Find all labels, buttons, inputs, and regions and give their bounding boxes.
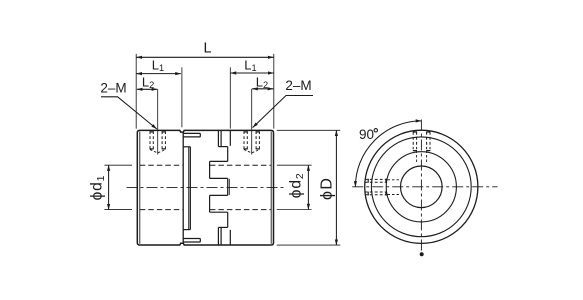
svg-text:L1: L1 [244,58,256,74]
meander step h1 [218,146,227,148]
meander v3 [227,178,229,195]
end view horizontal center line [352,186,497,188]
degree ring [374,129,377,132]
meander h4 [210,194,228,196]
top screw hole thread ticks [413,132,431,151]
disc left tenon bottom [183,239,200,243]
L1 right dimension line [231,72,274,74]
L2 right dimension line [252,88,273,90]
L dimension extension line right [273,54,275,129]
svg-text:ϕD: ϕD [319,177,336,200]
meander h3 [210,177,228,179]
svg-text:L: L [203,41,211,57]
svg-text:90: 90 [359,127,374,142]
L dimension extension line left [135,54,137,129]
L1 left dimension line [136,73,181,75]
disc left edge line b [189,147,191,230]
outer circle [365,130,478,243]
phi-d2 dimension line [307,165,309,209]
90 degree arc [355,121,421,187]
L dimension line [136,56,273,58]
right set screw drill cone [244,150,259,153]
left set screw thread ticks [150,132,166,149]
right hub bore hidden line bottom [210,209,271,211]
right set screw thread ticks [244,132,260,149]
meander v3 double [228,179,230,195]
left hub face [182,132,184,243]
phi-d1 extension bottom [104,209,132,211]
disc left step bottom [183,229,190,231]
phi-d2 extension bottom [277,209,312,211]
top screw hole pilot dashes [416,151,418,164]
left chamfer line [139,132,141,244]
left set screw drill cone [150,150,165,153]
right tab bottom line b [220,227,222,245]
right hub slot edge top [229,130,231,145]
phi-d1 extension top [104,164,132,166]
meander step h6 [218,226,227,228]
svg-text:L2: L2 [256,74,268,90]
svg-text:L2: L2 [142,74,154,90]
side view center line [127,187,286,189]
right tab top line b [220,130,222,146]
left screw hole dashed walls [365,179,387,194]
left set screw hole dashed walls [150,131,165,149]
meander v4 [209,195,211,212]
disc left tenon top [183,133,200,137]
phi-D extension bottom [277,244,340,246]
meander v2 [209,161,211,178]
left screw hole pilot dashes [388,179,402,181]
flange circle [371,137,471,237]
left screw hole thread ticks [368,179,386,196]
svg-text:2–M: 2–M [285,78,311,93]
right tab top line a [217,130,219,146]
boss circle [386,152,456,222]
right tab bottom line a [217,227,219,245]
meander v1 [227,147,229,162]
svg-text:2–M: 2–M [100,80,126,95]
meander h5 [210,211,228,213]
bore circle [401,166,443,208]
end view vertical center line [420,120,422,253]
meander h2 [210,160,228,162]
right set screw hole dashed walls [244,131,259,149]
disc left edge line a [188,147,190,230]
svg-text:ϕd2: ϕd2 [288,172,306,198]
left set screw center line [157,89,159,154]
right hub slot edge bottom [229,230,231,245]
right hub bore hidden line top [210,164,271,166]
L2 left dimension line [137,88,157,90]
right chamfer line [270,132,272,244]
L1 right extension line [229,67,231,128]
top screw hole dashed walls [413,132,430,149]
phi-D dimension line [335,130,337,245]
2-M leader right [253,96,313,128]
svg-text:ϕd1: ϕd1 [89,175,107,201]
meander v5 [227,212,229,227]
disc left step top [183,146,190,148]
center line end dot [420,252,424,256]
phi-d1 dimension line [108,165,110,209]
coupling body outline [137,130,273,245]
left hub bore hidden line bottom [140,209,183,211]
left hub bore hidden line top [140,164,183,166]
svg-text:L1: L1 [152,58,164,74]
phi-d2 extension top [277,164,312,166]
phi-D extension top [277,129,340,131]
right set screw center line [251,89,253,155]
L1 left extension line [181,67,183,127]
2-M leader left [101,97,157,129]
